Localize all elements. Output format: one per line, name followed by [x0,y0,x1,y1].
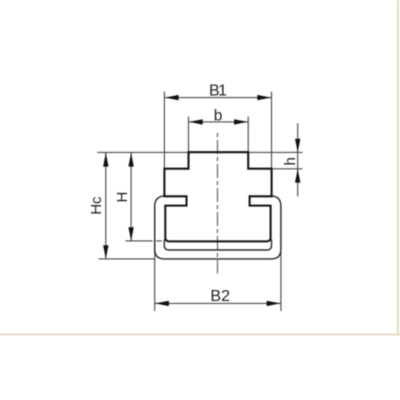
dimension line H [130,153,132,241]
svg-text:h: h [282,157,299,165]
extension line B1 left [163,92,165,169]
extension line B1 right [271,92,273,169]
dimension line Hc [105,153,107,259]
extension line H bottom dash [156,240,162,242]
centerline vertical dash-dot [217,133,219,274]
extension line Hc bottom [99,258,155,260]
arrowhead H top [128,153,133,167]
table cell border right [397,0,399,335]
table cell border bottom [0,334,400,336]
profile upper block contour [164,152,271,196]
dimension line B2 [155,302,280,304]
arrowhead b left [189,119,203,124]
arrowhead B1 left [165,95,179,100]
rail inner bottom contour [164,239,271,250]
arrowhead b right [234,119,248,124]
extension line B2 right [280,205,282,311]
extension line shoulder right [272,168,303,170]
extension line top surface left [97,151,188,153]
arrowhead Hc top [103,153,108,167]
dimension line b [189,121,248,123]
arrowhead h bottom (points up) [295,169,300,183]
dimension line B1 [165,97,271,99]
svg-text:b: b [214,107,223,124]
arrowhead B2 left [155,301,169,306]
arrowhead B2 right [267,301,281,306]
svg-text:H: H [114,192,131,203]
arrowhead h top (points down) [295,139,300,153]
svg-text:B1: B1 [209,82,227,99]
profile lips and groove contour [163,196,272,241]
extension line top surface right [248,151,302,153]
dimension line h [297,123,299,196]
arrowhead B1 right [257,95,271,100]
extension line b right [247,117,249,153]
arrowhead Hc bottom [103,245,108,259]
rail outer contour [155,196,281,259]
extension line H bottom [126,240,153,242]
svg-text:Hc: Hc [88,196,105,215]
arrowhead H bottom [128,227,133,241]
extension line B2 left [154,205,156,311]
extension line b left [188,117,190,153]
svg-text:B2: B2 [210,288,230,305]
